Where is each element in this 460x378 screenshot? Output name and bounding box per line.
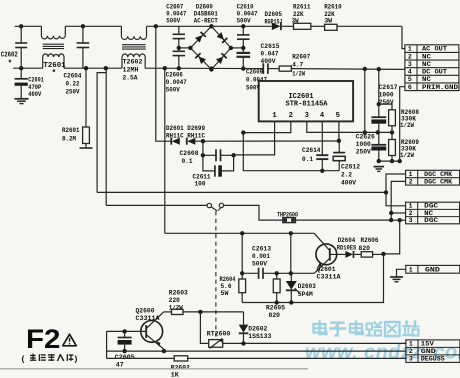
connector CN2603 DGC/NC/DGC (406, 202, 460, 224)
wire AC line 1 (top rail) (15, 24, 402, 28)
svg-text:1/2W: 1/2W (169, 304, 184, 312)
capacitor C2606 (173, 46, 185, 68)
svg-text:0.1: 0.1 (182, 158, 193, 166)
svg-text:1: 1 (408, 46, 412, 53)
op-amp IC2601 STR-81145A box (259, 81, 353, 121)
svg-text:250V: 250V (66, 89, 81, 97)
label D2600 AC-RECT (194, 3, 218, 25)
capacitor C2610 (237, 26, 250, 48)
label D2602 (248, 326, 271, 342)
label C2626 (356, 133, 375, 156)
transistor Q2601 C3311A (314, 233, 345, 273)
svg-text:THP2600: THP2600 (277, 211, 298, 219)
diode D2601 (171, 138, 180, 145)
svg-text:R2607: R2607 (292, 54, 310, 62)
capacitor C2605 (118, 329, 132, 353)
svg-text:5P4M: 5P4M (298, 291, 313, 299)
resistor R2605 (273, 273, 280, 302)
svg-text:Q2601: Q2601 (317, 266, 336, 274)
bus GND y351.1 (107, 349, 407, 353)
resistor R2608 (379, 104, 396, 132)
label C2608 (180, 150, 199, 166)
svg-text:3W: 3W (292, 17, 300, 25)
svg-text:2: 2 (409, 210, 413, 217)
svg-text:2.2: 2.2 (341, 171, 352, 179)
svg-text:RGP15J: RGP15J (265, 19, 283, 27)
wire DGC to R2606 node (384, 220, 400, 254)
wire feeder Va x97 (97, 73, 106, 193)
warning triangle (63, 334, 77, 346)
label T2602 (123, 59, 143, 83)
label C2606 (166, 72, 187, 95)
label R2611 (292, 3, 311, 25)
watermark www.cndzz.com (305, 322, 460, 364)
label THP2600 (277, 211, 298, 219)
label C2605 (115, 354, 135, 370)
svg-text:3: 3 (409, 356, 413, 363)
svg-text:NC: NC (422, 53, 431, 60)
label D2601 D2699 (166, 125, 205, 140)
svg-text:1: 1 (409, 266, 413, 273)
wire rail to C2613 row (240, 233, 244, 275)
resistor R2602 (174, 356, 188, 361)
wire control rail y233 (165, 231, 314, 235)
label IC2601 (286, 93, 329, 108)
label R2608 (400, 109, 419, 130)
svg-text:400V: 400V (341, 179, 357, 187)
label Q2601 (317, 266, 342, 282)
diode D2602 (239, 312, 249, 344)
label R2604 (220, 276, 236, 298)
bus DEGAUSS y358.4 (107, 357, 407, 359)
label R2603 (169, 289, 188, 312)
svg-text:2.5A: 2.5A (123, 75, 139, 83)
wire C2626 bottom rail (379, 159, 402, 163)
connector CN2604 GND (406, 265, 460, 273)
wire vertical to pin3 net (363, 69, 367, 135)
wire THP2600 to connector (295, 218, 393, 222)
bus 15V y343.4 (223, 341, 407, 345)
capacitor C2601 (15, 68, 28, 98)
resistor R2603 (172, 309, 184, 314)
svg-text:DGC: DGC (424, 203, 438, 210)
node R2606/DGC junction (381, 252, 385, 256)
svg-text:NC: NC (422, 76, 431, 83)
switch S2601 (power switch) (207, 203, 223, 211)
wire feeder x291 (289, 233, 293, 275)
svg-text:100: 100 (195, 181, 206, 189)
svg-text:0.22: 0.22 (66, 81, 80, 89)
svg-text:NC: NC (422, 61, 431, 68)
svg-text:5: 5 (408, 76, 412, 83)
svg-text:C2602: C2602 (1, 52, 18, 60)
label R2601 (62, 127, 80, 144)
svg-text:4: 4 (320, 112, 325, 120)
wire diode row to pin5 node (195, 139, 339, 143)
wire NC row2 lead (391, 212, 405, 214)
svg-text:1: 1 (409, 171, 413, 178)
wire GND lead + ground (390, 269, 406, 282)
svg-text:C3311A: C3311A (136, 315, 161, 323)
resistor R2604 (239, 273, 246, 302)
svg-text:2: 2 (409, 348, 413, 355)
resistor R2609 (389, 132, 396, 163)
svg-text:2: 2 (409, 178, 413, 185)
svg-text:8.2M: 8.2M (62, 136, 76, 144)
label F2 board id (26, 324, 61, 354)
label C2612 (341, 163, 360, 187)
pin 5 wire (337, 121, 341, 143)
svg-text:AC OUT: AC OUT (422, 46, 447, 53)
svg-text:DC OUT: DC OUT (422, 69, 447, 76)
svg-text:500V: 500V (166, 18, 181, 26)
varistor RT2600 (200, 312, 223, 349)
pin numbers 1-5 (272, 112, 340, 120)
svg-text:4.7: 4.7 (292, 61, 303, 69)
diode D2604 (345, 251, 353, 258)
svg-text:T2602: T2602 (123, 59, 143, 67)
wire base rail y312 (164, 310, 244, 314)
svg-text:GND: GND (421, 348, 436, 355)
svg-text:820: 820 (269, 312, 281, 320)
wire PRIM.GND riser (400, 87, 405, 161)
resistor R2611 (294, 23, 311, 29)
capacitor C2607 (173, 26, 185, 48)
svg-text:R2601: R2601 (62, 127, 80, 135)
svg-text:6: 6 (408, 84, 412, 91)
svg-text:AC-RECT: AC-RECT (194, 18, 218, 26)
svg-text:500V: 500V (252, 261, 268, 269)
wire to AC OUT pin1 (402, 26, 405, 48)
wire CMK row2 lead (389, 181, 406, 220)
capacitor C2608 (201, 141, 236, 161)
svg-text:3W: 3W (324, 18, 333, 26)
svg-text:2: 2 (289, 112, 293, 120)
svg-text:DGC CMK: DGC CMK (424, 171, 452, 178)
resistor R2601 (80, 66, 93, 148)
svg-text:F2: F2 (26, 324, 61, 354)
ground (primary) (374, 167, 385, 172)
choke T2601 (41, 26, 65, 68)
svg-text:400V: 400V (261, 58, 277, 66)
svg-text:C2604: C2604 (64, 73, 82, 81)
svg-text:1: 1 (409, 341, 413, 348)
svg-text:RH11C RH11C: RH11C RH11C (166, 132, 205, 140)
svg-text:1: 1 (272, 112, 277, 120)
wire switch to THP2600 (224, 205, 283, 220)
wire W2 to interlock switch (106, 204, 207, 206)
capacitor C2613 (242, 268, 314, 279)
wire feeder Vb x106 (105, 68, 107, 205)
connector CN2605 15V/GND/DEGUSS (406, 340, 460, 363)
wire W1 to DGC (97, 190, 388, 194)
diode D2699 (187, 138, 196, 145)
svg-text:2: 2 (408, 53, 412, 60)
capacitor C2615 (263, 63, 268, 74)
svg-text:1SS133: 1SS133 (248, 333, 271, 341)
transistor Q2600 C3311A (107, 312, 164, 351)
bridge rectifier D2600 (179, 26, 244, 71)
wire from AC line1 down to diode row (156, 26, 171, 141)
svg-text:DGC: DGC (424, 217, 438, 224)
thermistor THP2600 (283, 218, 296, 223)
wire DGC row3 lead (391, 218, 405, 222)
label C2601 (28, 77, 44, 100)
svg-text:DGC CMK: DGC CMK (424, 178, 452, 185)
capacitor C2617 (371, 117, 386, 132)
wire junction down to SCR bus (242, 254, 383, 305)
svg-text:RD10ES: RD10ES (337, 244, 357, 252)
label D2603 (298, 283, 316, 299)
svg-text:4: 4 (408, 69, 412, 76)
resistor R2610 (325, 24, 337, 30)
svg-text:250V: 250V (356, 148, 372, 156)
svg-text:820: 820 (359, 245, 371, 253)
label C2611 (193, 173, 211, 188)
pin 2 wire (241, 121, 291, 134)
svg-text:C2612: C2612 (341, 163, 360, 171)
label C2615 (261, 43, 280, 66)
svg-text:5W: 5W (221, 290, 230, 298)
svg-text:400V: 400V (28, 91, 42, 99)
svg-text:STR-81145A: STR-81145A (286, 101, 329, 109)
svg-text:D2603: D2603 (298, 283, 316, 291)
label R2609 (400, 139, 419, 160)
pin 4 wire / capacitor C2614 (316, 121, 328, 173)
svg-text:C2608: C2608 (180, 150, 199, 158)
capacitor C2626 (371, 132, 386, 163)
label C2607 (166, 3, 186, 25)
svg-text:C2614: C2614 (302, 147, 321, 155)
wire AC line 2 (lower rail) (13, 66, 405, 71)
capacitor C2602 (15, 26, 27, 68)
svg-text:500V: 500V (237, 18, 252, 26)
wire DC node to C2617 (377, 69, 381, 117)
wire CMK row1 lead (386, 174, 406, 206)
faint bottom rule (0, 368, 308, 370)
svg-text:C2609: C2609 (246, 69, 263, 77)
resistor R2607 (279, 66, 291, 71)
svg-text:1: 1 (409, 203, 413, 210)
svg-text:1/2W: 1/2W (292, 71, 306, 79)
svg-text:15V: 15V (421, 341, 434, 348)
pin 1 wire (234, 121, 275, 154)
svg-text:1/2W: 1/2W (400, 122, 415, 130)
choke T2602 (121, 26, 146, 68)
capacitor C2611 (203, 155, 234, 176)
svg-text:12MH: 12MH (123, 67, 139, 75)
resistor R2606 (355, 252, 384, 257)
capacitor C2612 (333, 141, 345, 171)
svg-text:GND: GND (425, 266, 440, 273)
svg-text:RT2600: RT2600 (207, 330, 231, 338)
svg-text:): ) (75, 354, 78, 364)
svg-text:C3311A: C3311A (317, 274, 342, 282)
svg-text:1K: 1K (171, 372, 180, 378)
connector CN2602 DGC CMK (406, 170, 460, 185)
label R2610 (324, 3, 342, 25)
capacitor C2609 (237, 46, 251, 69)
ground (AC input) (15, 99, 29, 104)
svg-text:3: 3 (305, 112, 309, 120)
svg-text:3: 3 (408, 61, 412, 68)
svg-text:0.1: 0.1 (302, 156, 313, 164)
svg-text:NC: NC (424, 210, 433, 217)
label C2609 (246, 69, 267, 93)
svg-text:500V: 500V (166, 87, 181, 95)
svg-text:1/2W: 1/2W (400, 152, 415, 160)
connector CN2601 AC OUT/NC/NC/DC OUT/NC/PRIM.GND (405, 45, 459, 91)
pin 3 wire (307, 121, 394, 134)
capacitor C2604 (77, 26, 90, 68)
wire net y171 (243, 133, 339, 171)
label R2602 (171, 364, 190, 378)
label Q2600 (136, 307, 161, 323)
label R2607 (292, 54, 310, 79)
label C2614 (302, 147, 321, 164)
label R2606 (359, 237, 379, 253)
svg-text:PRIM.GND: PRIM.GND (422, 84, 458, 91)
wire feeder from AC line1 (x165) (164, 68, 166, 233)
label (power input board) (22, 354, 78, 364)
wire interlock dashed link (215, 211, 217, 336)
label D2604 (337, 237, 357, 252)
svg-text:*: * (52, 69, 57, 78)
diode D2605 (272, 23, 281, 31)
label C2602 (1, 52, 18, 69)
thyristor D2603 5P4M (286, 273, 300, 302)
svg-text:*: * (8, 60, 13, 69)
label D2605 (265, 11, 283, 26)
svg-text:DEGUSS: DEGUSS (421, 356, 445, 363)
label C2610 (237, 3, 258, 25)
svg-text:5: 5 (336, 112, 340, 120)
label T2601 (44, 62, 66, 78)
label R2605 (266, 305, 285, 320)
label RT2600 (207, 330, 231, 338)
label C2617 (379, 84, 398, 107)
label C2613 (252, 246, 271, 269)
svg-text:3: 3 (409, 217, 413, 224)
wire left drop x106.6 (106, 331, 108, 358)
svg-text:(: ( (22, 354, 25, 364)
label C2604 (64, 73, 82, 97)
